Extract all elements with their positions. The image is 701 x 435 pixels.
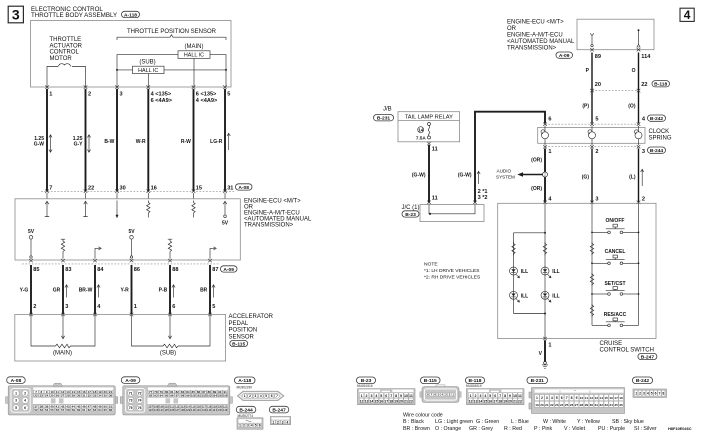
svg-text:17: 17 [614,396,618,400]
svg-text:6: 6 [494,394,496,398]
pin numbers 2 3 4 1 6 5 [33,304,215,310]
page frame number 3 [8,6,23,23]
svg-text:W-R: W-R [136,139,146,145]
hall IC (MAIN) box [178,51,210,59]
svg-text:1: 1 [49,92,52,98]
svg-text:2: 2 [249,394,251,398]
svg-text:A-08: A-08 [11,378,22,384]
svg-text:B-231: B-231 [531,378,545,384]
svg-text:22: 22 [550,403,554,407]
svg-text:Y-R: Y-R [120,288,129,294]
connector view B-247 [269,406,290,424]
svg-text:(SUB): (SUB) [139,60,155,66]
svg-text:5: 5 [15,406,17,410]
svg-text:58: 58 [66,408,70,412]
svg-text:5: 5 [212,304,215,310]
svg-text:G-W: G-W [34,142,45,148]
svg-text:(L): (L) [629,174,636,180]
svg-text:2: 2 [243,424,245,428]
direction arrow wire6 [227,133,230,150]
svg-text:SYSTEM: SYSTEM [496,174,515,179]
svg-text:63: 63 [93,408,97,412]
svg-text:1: 1 [470,394,472,398]
svg-text:27: 27 [61,394,65,398]
svg-text:8: 8 [504,394,506,398]
svg-text:92: 92 [149,394,153,398]
svg-text:ILL: ILL [552,293,560,299]
svg-text:A-08: A-08 [238,185,249,191]
svg-text:106: 106 [223,394,228,398]
ECU output symbol pin30 (down arrow) [116,201,119,219]
svg-text:97: 97 [176,394,180,398]
svg-text:2: 2 [642,196,645,202]
svg-text:4: 4 [642,116,646,122]
hall IC (SUB) box [133,66,165,74]
svg-text:26: 26 [570,403,574,407]
connector view B-242 [633,377,667,397]
svg-text:5: 5 [595,116,598,122]
svg-text:25: 25 [565,403,569,407]
svg-text:THROTTLE BODY ASSEMBLY: THROTTLE BODY ASSEMBLY [31,12,117,19]
svg-text:LG-R: LG-R [210,139,223,145]
svg-text:B-247: B-247 [641,354,655,360]
svg-text:Wire colour code: Wire colour code [403,413,443,419]
svg-text:32: 32 [600,403,604,407]
svg-text:9: 9 [576,396,578,400]
svg-text:5: 5 [489,394,491,398]
svg-text:85: 85 [33,267,39,273]
svg-text:122: 122 [148,408,153,412]
svg-text:1: 1 [548,149,551,155]
svg-text:135: 135 [218,408,223,412]
svg-text:20: 20 [595,82,601,88]
svg-text:ILL: ILL [552,269,560,275]
ECU resistor at pin15 [192,201,195,218]
svg-text:8: 8 [662,392,664,396]
svg-text:2: 2 [639,392,641,396]
svg-text:R-W: R-W [181,139,191,145]
svg-text:J/B: J/B [383,107,392,113]
wire 4 [147,89,149,191]
svg-text:3: 3 [255,394,257,398]
svg-text:19: 19 [535,403,539,407]
svg-text:ACTUATOR: ACTUATOR [50,43,83,49]
direction arrows lower wires [65,285,215,298]
svg-text:(G): (G) [582,174,590,180]
svg-text:Y-G: Y-G [20,288,29,294]
switch RES/ACC [592,318,639,327]
svg-text:A-09: A-09 [125,378,136,384]
svg-text:35: 35 [104,394,108,398]
svg-text:19: 19 [503,399,507,403]
svg-text:(G-W): (G-W) [458,173,472,179]
svg-text:115: 115 [191,405,196,409]
body ground [542,362,548,369]
svg-text:73: 73 [129,399,133,403]
ECU sense arrow pin84 [95,247,101,259]
svg-text:HALL IC: HALL IC [184,53,204,59]
svg-text:116: 116 [196,405,201,409]
wire P (pin89 down) [591,53,593,124]
wire OR (clock spring to cruise pin4) [544,148,546,202]
svg-text:94: 94 [160,394,164,398]
svg-text:4 <4A9>: 4 <4A9> [196,98,218,104]
svg-text:6: 6 [172,304,175,310]
svg-text:12: 12 [590,396,594,400]
svg-text:15: 15 [483,399,487,403]
svg-text:11: 11 [432,195,438,201]
svg-text:2: 2 [595,149,598,155]
ECU resistor at pin16 [147,201,150,218]
svg-text:3 *2: 3 *2 [478,195,488,201]
svg-text:14: 14 [478,399,482,403]
svg-text:RES/ACC: RES/ACC [604,312,627,318]
pin marks at B-242 dashed [543,123,640,126]
audio system arrow [517,172,542,176]
svg-text:1: 1 [361,394,363,398]
svg-text:4: 4 [286,420,288,424]
wire G-W from relay to J/C [428,145,430,202]
svg-text:107: 107 [148,405,153,409]
pin marks at right ECU bottom [590,48,640,51]
svg-text:71: 71 [129,391,133,395]
svg-text:134: 134 [212,408,217,412]
svg-text:4: 4 [548,196,552,202]
ILL lamp L4 [541,291,560,302]
wire: sub hall ic bottom drop to pin 4 [147,74,149,87]
svg-text:R : Red: R : Red [504,426,522,432]
svg-text:B-244: B-244 [650,148,664,154]
svg-text:20: 20 [508,399,512,403]
svg-text:21: 21 [545,403,549,407]
svg-text:93: 93 [154,394,158,398]
svg-text:GR : Grey: GR : Grey [469,426,493,432]
svg-text:30: 30 [77,394,81,398]
svg-text:5V: 5V [128,229,135,235]
svg-text:11: 11 [409,394,413,398]
svg-text:1: 1 [15,391,17,395]
direction arrow audio G-W wire [477,171,480,184]
svg-text:88: 88 [208,390,212,394]
svg-text:7: 7 [566,396,568,400]
svg-text:89: 89 [595,54,601,60]
svg-text:23: 23 [555,403,559,407]
wire O (pin114 down) [638,53,640,124]
svg-text:*2: RH DRIVE VEHICLES: *2: RH DRIVE VEHICLES [424,274,481,280]
svg-text:ACCELERATOR: ACCELERATOR [229,314,274,320]
svg-text:108: 108 [154,405,159,409]
svg-text:125: 125 [164,408,169,412]
svg-text:ILL: ILL [521,293,529,299]
svg-text:85: 85 [192,390,196,394]
svg-text:NOTE: NOTE [424,262,438,268]
svg-text:33: 33 [604,403,608,407]
svg-text:10: 10 [580,396,584,400]
svg-text:5V: 5V [222,221,229,227]
label audio system [496,169,515,180]
svg-text:LG : Light green: LG : Light green [435,419,473,425]
svg-text:62: 62 [88,408,92,412]
audio system junction ring [543,172,548,177]
connector A-08 dashed line [41,190,235,192]
svg-text:61: 61 [82,408,86,412]
title: electronic control throttle body assembly [31,6,117,19]
svg-text:66: 66 [109,408,113,412]
svg-text:CRUISE: CRUISE [600,341,623,347]
svg-text:V: V [539,351,543,357]
svg-text:MOTOR: MOTOR [50,56,73,62]
wire 1 (pin1 to ECU pin7) [46,89,48,191]
svg-text:54: 54 [45,408,49,412]
svg-text:64: 64 [98,408,102,412]
pin marks at accel sensor box top [29,313,212,316]
svg-text:118: 118 [207,405,212,409]
connector label B-244 [648,147,666,154]
svg-text:121: 121 [223,405,228,409]
svg-text:A-118: A-118 [238,378,251,384]
svg-text:SPRING: SPRING [649,135,672,141]
svg-text:109: 109 [159,405,164,409]
svg-text:11: 11 [432,147,438,153]
svg-text:P-B: P-B [159,288,168,294]
ECU resistor to pin83 [61,239,65,258]
pin numbers 7 22 30 16 15 31 [49,185,233,191]
svg-text:2: 2 [366,394,368,398]
svg-text:B-W: B-W [104,139,114,145]
svg-text:11: 11 [518,394,522,398]
wire Y-G (pin85 to pin2) [30,265,32,315]
svg-text:126: 126 [170,408,175,412]
wire G-W branch (audio feed) [475,112,545,203]
svg-text:113: 113 [180,405,185,409]
svg-text:105: 105 [218,394,223,398]
ECU 5V pull-up at pin31 [222,201,229,226]
svg-text:POSITION: POSITION [229,328,258,334]
svg-text:ON/OFF: ON/OFF [606,218,625,224]
svg-text:CLOCK: CLOCK [649,129,670,135]
svg-text:3: 3 [642,149,645,155]
svg-text:Y : Yellow: Y : Yellow [577,419,600,425]
svg-text:*1: LH DRIVE VEHICLES: *1: LH DRIVE VEHICLES [424,268,480,274]
svg-text:131: 131 [196,408,201,412]
svg-text:127: 127 [175,408,180,412]
svg-text:6: 6 [385,394,387,398]
svg-text:15: 15 [604,396,608,400]
svg-text:36: 36 [109,394,113,398]
connector view B-23 [357,377,416,405]
connector label A-08 [236,184,253,191]
svg-text:136: 136 [223,408,228,412]
label clock spring [649,129,672,141]
svg-text:ILL: ILL [521,269,529,275]
connector view A-09 [120,377,232,415]
svg-text:MU803919: MU803919 [466,384,482,388]
connector label B-242 [648,115,666,122]
svg-text:7: 7 [49,185,52,191]
svg-text:ENGINE-ECU <M/T>: ENGINE-ECU <M/T> [507,20,564,26]
svg-text:88: 88 [172,267,178,273]
wire 2 [85,89,87,191]
svg-text:99: 99 [186,394,190,398]
svg-text:90: 90 [218,390,222,394]
svg-text:3: 3 [370,394,372,398]
connector view B-115 [420,377,461,403]
svg-text:22: 22 [34,394,38,398]
svg-text:35: 35 [614,403,618,407]
svg-text:14: 14 [418,128,423,133]
svg-text:3: 3 [595,196,598,202]
svg-text:3: 3 [12,7,20,23]
direction arrow wire1 [49,135,52,152]
ECU resistor to pin88 [168,239,172,258]
svg-text:36: 36 [619,403,623,407]
svg-text:(MAIN): (MAIN) [185,44,204,50]
wire P-B [169,265,171,315]
svg-text:19: 19 [394,399,398,403]
svg-text:SI : Silver: SI : Silver [634,426,657,432]
svg-text:1: 1 [239,424,241,428]
svg-text:TRANSMISSION>: TRANSMISSION> [244,223,294,229]
pin numbers 1 2 3 (clock spring bottom) [548,149,645,155]
svg-text:<AUTOMATED MANUAL: <AUTOMATED MANUAL [507,39,575,45]
svg-text:B-247: B-247 [272,408,286,414]
pin marks at A-08 dashed line [45,190,227,193]
svg-text:B-242: B-242 [636,378,650,384]
pin number 2*1 / 3*2 (J/C) [478,189,488,201]
ECU 5V source to pin86 [128,229,135,258]
svg-text:6 <4A9>: 6 <4A9> [151,98,173,104]
connector view B-231 [527,377,625,413]
svg-text:14: 14 [369,399,373,403]
svg-text:21: 21 [513,399,517,403]
potentiometer MAIN [31,315,95,348]
svg-text:7: 7 [276,394,278,398]
svg-text:5: 5 [227,92,230,98]
svg-text:18: 18 [498,399,502,403]
clock spring coil 2 [588,126,596,145]
resistor rail (between on/off and cancel) [590,242,593,255]
svg-text:24: 24 [45,394,49,398]
bracket under throttle position sensor [117,35,226,40]
ILL lamp L2 [541,267,560,278]
svg-text:32: 32 [88,394,92,398]
switch SET/CST [591,287,639,296]
svg-text:18: 18 [389,399,393,403]
svg-text:2: 2 [33,304,36,310]
svg-text:2: 2 [475,394,477,398]
svg-text:65: 65 [104,408,108,412]
svg-text:16: 16 [151,185,157,191]
fuse 14 7.5A inside relay box [416,123,431,141]
wire GR [62,265,64,315]
connector label A-09 (right) [556,52,573,59]
wire: sub hall ic left and right connections [117,69,226,71]
pin numbers 85 83 84 86 88 87 [33,267,218,273]
svg-text:13: 13 [595,396,599,400]
pin numbers 5 and 4 (clock spring top) [595,116,646,122]
svg-text:129: 129 [186,408,191,412]
ILL lamp rail (pin4 vertical) [544,203,546,338]
wire: main hall ic to side rails [117,55,226,87]
ILL lamp L3 [510,291,529,302]
connector label B-115 (sensor) [230,340,248,347]
svg-text:3: 3 [15,399,17,403]
label cruise control switch [600,341,654,353]
svg-text:3: 3 [479,394,481,398]
svg-text:J/C (1): J/C (1) [402,205,420,211]
svg-text:14: 14 [600,396,604,400]
svg-text:3: 3 [282,420,284,424]
svg-text:2: 2 [88,92,91,98]
svg-text:34: 34 [98,394,102,398]
svg-text:27: 27 [575,403,579,407]
svg-text:18: 18 [619,396,623,400]
svg-text:83: 83 [65,267,71,273]
svg-text:4: 4 [251,424,253,428]
svg-text:5V: 5V [28,229,35,235]
svg-text:G-Y: G-Y [74,142,84,148]
ECU input symbol pin22 [83,201,87,216]
wire 3 [116,89,118,191]
svg-text:33: 33 [93,394,97,398]
svg-text:2: 2 [24,391,26,395]
throttle body assembly box [31,21,232,88]
svg-text:A-09: A-09 [223,267,234,273]
ECU 5V source to pin85 [28,229,35,258]
ECU box (left, engine ECU) [15,199,240,260]
svg-text:4: 4 [551,396,553,400]
svg-text:6: 6 [24,406,26,410]
wire label 1.25 G-W [34,136,45,148]
svg-text:AUDIO: AUDIO [497,169,512,174]
connector label A-09 (left) [221,266,238,273]
junction connector J/C(1) box [420,205,484,222]
svg-text:119: 119 [212,405,217,409]
svg-text:1: 1 [548,342,551,348]
motor M1 symbol [47,64,86,87]
pin mark cruise box bottom [543,337,547,340]
ILL left branch top [514,232,547,234]
svg-text:3: 3 [546,396,548,400]
wires from A-08 into ECU [47,193,225,199]
svg-text:A-09: A-09 [559,53,570,59]
svg-text:100: 100 [191,394,196,398]
svg-text:11: 11 [585,396,589,400]
svg-text:7: 7 [499,394,501,398]
connector view A-118 [235,377,285,401]
pin marks at B-244 dashed [543,145,640,148]
svg-text:22: 22 [409,399,413,403]
connector view B-244 [236,406,263,429]
svg-text:1: 1 [244,394,246,398]
svg-text:B-118: B-118 [654,82,667,88]
pin mark at J/C left [427,201,431,204]
svg-text:120: 120 [218,405,223,409]
ECU box (right) [577,19,654,50]
svg-text:55: 55 [50,408,54,412]
svg-text:29: 29 [585,403,589,407]
clock spring coil 1 [541,126,549,145]
svg-text:22: 22 [88,185,94,191]
svg-text:1: 1 [635,392,637,396]
svg-text:12: 12 [469,399,473,403]
pin mark below relay [427,142,431,145]
potentiometer SUB [132,315,211,348]
page frame number 4 [680,8,694,22]
svg-text:17: 17 [384,399,388,403]
pin marks at throttle body box bottom [45,85,227,88]
svg-text:A-118: A-118 [124,12,137,18]
